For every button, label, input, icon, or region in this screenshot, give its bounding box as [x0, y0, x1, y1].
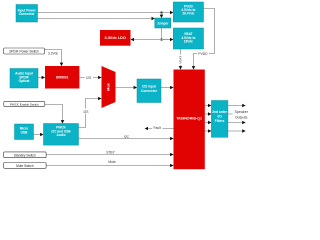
node Speaker Outputs label: [233, 108, 251, 120]
3.3Vdc LDO: [100, 30, 131, 46]
svg-text:Mute: Mute: [108, 160, 115, 164]
svg-text:DIR9001: DIR9001: [56, 75, 69, 79]
wire DIR9001 to Mux: [79, 77, 101, 79]
wire PVDD rail from input connector: [38, 12, 174, 14]
Audio Input SPDIF Optical: [10, 69, 38, 89]
svg-text:I2S: I2S: [86, 76, 92, 80]
wire 3.3Vdc to DIR9001: [44, 50, 61, 66]
svg-text:SPDIF Power Switch: SPDIF Power Switch: [9, 50, 39, 54]
svg-text:Jumper: Jumper: [157, 21, 169, 25]
svg-text:Connector: Connector: [141, 89, 158, 93]
wire STBY: [46, 154, 173, 156]
Micro USB: [15, 124, 34, 140]
svg-text:VBAT: VBAT: [179, 56, 183, 64]
wire VBAT drop: [180, 49, 182, 69]
wire filter outputs (4): [228, 105, 245, 107]
VBAT supply block: [173, 28, 203, 49]
wire audio to DIR9001: [38, 77, 45, 79]
svg-text:Fault: Fault: [154, 126, 161, 130]
svg-text:I2C: I2C: [124, 135, 130, 139]
svg-text:Standby Switch: Standby Switch: [14, 153, 36, 157]
wire PWCK enable: [45, 105, 63, 124]
PWCK I2C and USB Audio: [44, 124, 79, 146]
wire PVDD path: [204, 9, 215, 54]
node junction on PVDD rail: [161, 12, 163, 14]
2nd order I/O Filters: [211, 101, 228, 138]
I2S input Connector: [137, 79, 161, 103]
svg-text:PWCK Enable Switch: PWCK Enable Switch: [10, 102, 39, 106]
svg-text:18Vdc: 18Vdc: [184, 40, 194, 44]
Standby Switch: [4, 152, 47, 158]
svg-text:PVDD: PVDD: [198, 52, 208, 56]
node VBAT label: [178, 54, 182, 65]
svg-text:2nd order: 2nd order: [212, 110, 227, 114]
svg-text:Audio: Audio: [56, 133, 65, 137]
wire Fault: [145, 128, 174, 130]
wire TAS to filter (4): [205, 105, 211, 107]
svg-text:Mute Switch: Mute Switch: [16, 164, 34, 168]
wire LDO / VBAT supply rail: [162, 39, 172, 41]
svg-text:I2S input: I2S input: [142, 84, 156, 88]
wire I2S connector to TAS: [161, 87, 173, 89]
wire Micro USB to PPCMB: [34, 134, 44, 136]
wire I2C: [79, 138, 174, 140]
svg-text:26.4Vdc: 26.4Vdc: [182, 12, 194, 16]
Input Power Connector: [16, 5, 38, 23]
wire Mux to I2S connector: [116, 87, 137, 89]
PWCK Enable Switch: [4, 102, 45, 107]
svg-text:STBY: STBY: [106, 151, 115, 155]
svg-text:Optical: Optical: [19, 79, 30, 83]
Mute Switch: [4, 163, 47, 169]
wire PPCMB to Mux: [79, 99, 102, 128]
svg-text:I2S: I2S: [84, 110, 90, 114]
svg-text:TAS6424MS-Q1: TAS6424MS-Q1: [176, 117, 202, 121]
svg-text:Filters: Filters: [215, 119, 225, 123]
svg-text:USB: USB: [21, 131, 28, 135]
node junction LDO/VBAT rail: [161, 39, 163, 41]
svg-text:Outputs: Outputs: [235, 116, 248, 120]
svg-text:3.3Vdc: 3.3Vdc: [48, 51, 59, 55]
wire Mute: [46, 165, 173, 167]
PVDD supply block: [173, 2, 203, 22]
Jumper: [155, 18, 171, 28]
TAS6424MS-Q1: [174, 70, 205, 170]
wire drop to jumper top: [161, 13, 163, 18]
svg-text:3.3Vdc LDO: 3.3Vdc LDO: [105, 36, 126, 40]
Mux: [102, 66, 116, 108]
svg-text:Speaker: Speaker: [235, 110, 249, 114]
SPDIF Power Switch: [4, 48, 45, 54]
wire VBAT rail from input connector to jumper: [38, 18, 155, 20]
wire jumper bottom drop: [161, 28, 163, 40]
svg-text:Connector: Connector: [19, 12, 36, 16]
DIR9001 U1: [45, 66, 79, 89]
svg-text:I/O: I/O: [217, 114, 222, 118]
svg-text:Mux: Mux: [107, 82, 111, 90]
